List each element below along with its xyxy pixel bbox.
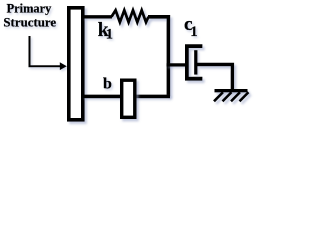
label k1 <box>98 20 113 43</box>
svg-text:1: 1 <box>106 27 113 43</box>
inerter b <box>122 80 135 117</box>
damper rod to ground <box>197 65 232 91</box>
label: Primary Structure <box>3 2 56 30</box>
svg-text:1: 1 <box>190 24 197 40</box>
svg-text:b: b <box>103 76 112 93</box>
svg-text:Structure: Structure <box>3 16 56 30</box>
arrow (pointer to primary structure) <box>30 36 67 70</box>
wire (top, spring to corner) and vertical riser <box>148 17 168 97</box>
label c1 <box>184 14 198 40</box>
wire (top, wall to spring) <box>83 15 112 18</box>
wire (bottom, wall to riser through inerter) <box>83 95 170 99</box>
primary structure wall <box>69 8 83 120</box>
damper c1 piston <box>194 50 197 74</box>
svg-text:Primary: Primary <box>7 2 53 16</box>
spring k1 <box>112 10 149 22</box>
wire (branch to damper) <box>167 63 188 66</box>
ground <box>214 91 249 102</box>
damper c1 cylinder <box>187 46 203 79</box>
